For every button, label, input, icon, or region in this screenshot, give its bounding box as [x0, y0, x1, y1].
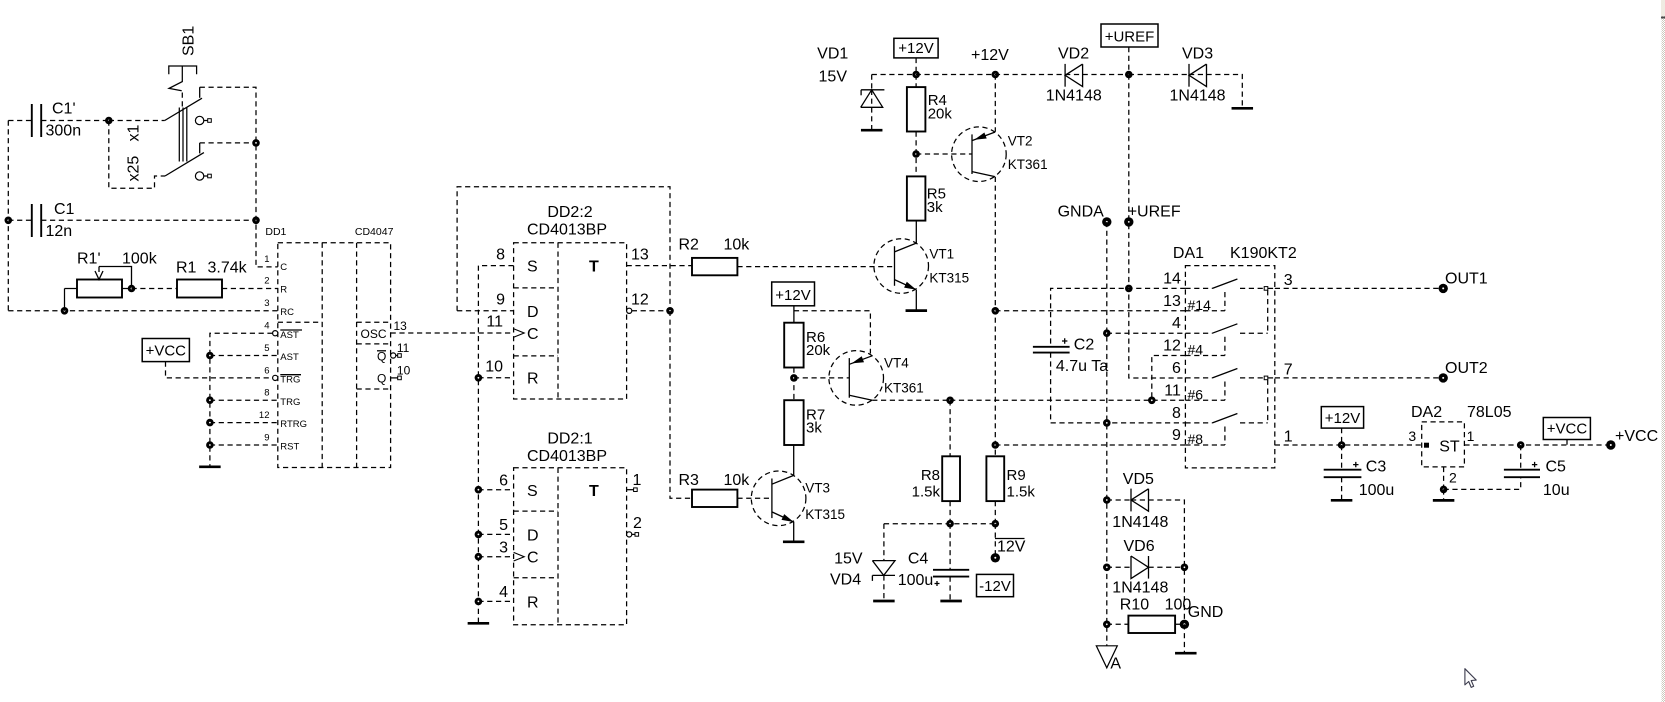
IC DA2 pin2 [1444, 467, 1457, 490]
resistor R2 [679, 237, 751, 276]
wire DD1 ground rail [210, 333, 273, 466]
svg-text:1: 1 [1284, 429, 1293, 446]
power +12V box mid [772, 282, 815, 306]
svg-text:VD4: VD4 [830, 572, 861, 589]
svg-text:5: 5 [499, 517, 508, 534]
svg-text:13: 13 [631, 246, 649, 263]
svg-text:14: 14 [1163, 270, 1181, 287]
label +UREF node [1128, 204, 1181, 221]
wire pin14 C2 [1051, 288, 1186, 346]
svg-text:SB1: SB1 [181, 26, 198, 56]
wire to DA1 pin9 [995, 444, 1185, 446]
wire pin4 [1107, 332, 1186, 334]
svg-text:DA2: DA2 [1411, 404, 1442, 421]
switch SB1 pole2 open contact [195, 172, 211, 180]
node DD2:2 pin10 rail [475, 374, 483, 382]
wire DA1 pin1 to DA2 [1275, 444, 1422, 446]
svg-text:T: T [589, 258, 599, 275]
wire UREF box down [1128, 47, 1130, 75]
ground VD4 [873, 600, 895, 603]
svg-text:C5: C5 [1546, 459, 1567, 476]
potentiometer R1' [65, 251, 158, 311]
IC DD1 pin 5 AST [264, 343, 299, 363]
wire rail pin9 [210, 444, 278, 446]
svg-text:KT315: KT315 [929, 271, 969, 286]
wire DD2:2 feedback loop [457, 187, 670, 311]
svg-text:C1: C1 [54, 201, 75, 218]
node rail pin9 [206, 441, 214, 449]
wire out to DA1 pin11 [950, 399, 1185, 401]
svg-text:+12V: +12V [1325, 410, 1360, 427]
svg-text:+12V: +12V [971, 47, 1009, 64]
wire VT2 collector down [994, 177, 996, 457]
IC DA1 switch 2 [1185, 324, 1267, 358]
switch SB1 label [181, 26, 198, 56]
wire VT2 emitter up [994, 75, 996, 132]
mouse cursor [1465, 669, 1476, 688]
node UREF terminal [1125, 218, 1133, 226]
IC DA1 pin 11 number [1164, 382, 1181, 399]
svg-text:#4: #4 [1188, 342, 1204, 358]
regulator DA2 outline [1422, 422, 1465, 467]
wire SB1 lower common [109, 121, 165, 189]
terminal +UREF [1124, 217, 1133, 226]
node C3 top [1338, 441, 1346, 449]
svg-text:RST: RST [280, 442, 299, 453]
node C5 top [1517, 441, 1525, 449]
wire OUT2 [1275, 377, 1443, 379]
node GNDA R10 [1103, 621, 1111, 629]
node rail pin8 [206, 396, 214, 404]
IC DA2 ST [1424, 438, 1460, 455]
node DD2:2 pin12 junction [666, 307, 674, 315]
diode VD3 [1170, 46, 1226, 105]
svg-text:C4: C4 [908, 551, 929, 568]
ground C3 [1331, 499, 1353, 502]
wire +12V box down [915, 58, 917, 75]
svg-text:D: D [527, 528, 539, 545]
svg-text:4: 4 [264, 321, 269, 332]
wire DA2 out [1464, 444, 1610, 446]
svg-text:VT3: VT3 [805, 481, 830, 496]
IC DD2:1 letter C [527, 550, 539, 567]
node junction C1prime right [105, 117, 113, 125]
svg-text:11: 11 [486, 314, 503, 331]
node UREF top [1125, 71, 1133, 79]
svg-text:+UREF: +UREF [1128, 204, 1181, 221]
svg-text:R: R [280, 285, 287, 296]
node +12V VT2 [992, 71, 1000, 79]
svg-text:13: 13 [394, 319, 408, 333]
svg-text:VD5: VD5 [1123, 471, 1154, 488]
svg-text:CD4013BP: CD4013BP [527, 448, 607, 465]
switch SB1 pole2 arm [165, 153, 204, 176]
wire rail pin8 [210, 399, 278, 401]
IC DD2:2 pin 11 clk [486, 314, 503, 331]
switch SB1 pole1 arm [165, 98, 202, 120]
svg-text:AST: AST [280, 352, 299, 363]
switch SB1 actuator [169, 66, 197, 162]
IC DA1 pin 6 number [1172, 360, 1181, 377]
svg-text:R2: R2 [679, 237, 700, 254]
node rail pin12 [206, 419, 214, 427]
svg-text:DD1: DD1 [265, 226, 286, 238]
svg-text:DA1: DA1 [1173, 245, 1204, 262]
svg-text:R1: R1 [176, 260, 197, 277]
wire VT2 base [916, 153, 972, 155]
svg-text:1N4148: 1N4148 [1046, 88, 1102, 105]
IC DD1 pin 12 RTRG [259, 410, 307, 430]
svg-text:+VCC: +VCC [1615, 428, 1658, 445]
node rail pin4 [475, 598, 483, 606]
diode VD5 [1107, 471, 1169, 531]
svg-text:+12V: +12V [898, 40, 933, 57]
svg-text:TRG: TRG [280, 375, 300, 386]
label +12V node [971, 47, 1009, 64]
wire SB1 to DD1 pin1 [200, 87, 278, 267]
supply -12V terminal [977, 524, 1026, 597]
IC DA1 pin 14 number [1163, 270, 1181, 287]
IC DD1 pin 10 Q [357, 363, 411, 389]
svg-text:78L05: 78L05 [1467, 404, 1512, 421]
IC DA2 pin1 number [1467, 428, 1475, 444]
svg-text:10: 10 [485, 359, 503, 376]
svg-text:11: 11 [1164, 382, 1181, 399]
svg-text:+12V: +12V [775, 287, 810, 304]
wire pin12 link down [1152, 356, 1186, 401]
switch SB1 pole1 open contact [195, 116, 211, 124]
svg-text:15V: 15V [834, 551, 863, 568]
IC DD1 OSC box [357, 322, 391, 344]
terminal +VCC [1606, 428, 1658, 450]
svg-text:3k: 3k [806, 420, 822, 437]
ground VD3 [1232, 107, 1254, 110]
node +12V R4 [912, 71, 920, 79]
svg-text:300n: 300n [46, 123, 82, 140]
IC DD2:2 outline [514, 243, 627, 399]
node C4 top [946, 520, 954, 528]
IC DD2:1 pin 6 [478, 473, 513, 490]
svg-text:VD3: VD3 [1182, 46, 1213, 63]
svg-text:8: 8 [496, 246, 505, 263]
ground VT3 [783, 540, 805, 543]
node UREF pin14 [1125, 285, 1133, 293]
capacitor C1' [8, 101, 109, 140]
svg-text:+VCC: +VCC [146, 342, 187, 359]
wire R4 to rail [915, 75, 917, 88]
power +VCC box [142, 339, 189, 362]
svg-text:VD6: VD6 [1124, 538, 1155, 555]
IC DD2:2 letter S [527, 258, 538, 275]
IC DD1 pin 2 R [264, 276, 287, 296]
node VT2 pin13 branch [992, 307, 1000, 315]
wire left vertical rail [7, 121, 9, 311]
capacitor C2 [1033, 337, 1108, 423]
svg-text:1.5k: 1.5k [1007, 484, 1036, 501]
node rail pin6 [475, 486, 483, 494]
wire R2 to VT1 base [737, 266, 894, 268]
IC DD2:2 inner lines [514, 243, 558, 399]
svg-text:DD2:2: DD2:2 [547, 204, 592, 221]
svg-text:+UREF: +UREF [1105, 28, 1155, 45]
analog IC DA1 outline [1185, 266, 1274, 468]
wire R6 R7 junction [793, 368, 795, 401]
svg-text:20k: 20k [806, 342, 831, 359]
svg-text:D: D [527, 304, 539, 321]
svg-text:GND: GND [1188, 604, 1224, 621]
svg-text:KT361: KT361 [884, 381, 924, 396]
svg-text:x1: x1 [126, 125, 143, 142]
power +12V box right [1321, 407, 1363, 429]
power +UREF box [1101, 24, 1158, 47]
resistor R10 [1107, 597, 1192, 634]
IC DD1 pin 3 RC [264, 298, 294, 318]
wire R3 to VT3 base [737, 497, 772, 499]
IC DD2:2 letter D [527, 304, 539, 321]
svg-text:RC: RC [280, 307, 294, 318]
transistor VT4 [829, 351, 924, 406]
node junction pot left [61, 307, 69, 315]
svg-text:3: 3 [1408, 428, 1416, 444]
label GNDA [1058, 204, 1105, 221]
wire to DA1 pin13 [995, 310, 1185, 312]
svg-text:100k: 100k [122, 251, 158, 268]
wire UREF rail [1129, 75, 1186, 379]
svg-text:A: A [1110, 656, 1121, 673]
node GNDA VD6 [1103, 564, 1111, 572]
node rail pin5 [206, 352, 214, 360]
svg-text:ST: ST [1439, 438, 1460, 455]
IC DA1 pin 3 number [1284, 272, 1293, 289]
wire C2 bottom pin8 [1051, 422, 1186, 424]
terminal GNDA [1102, 217, 1111, 226]
ground DA2 [1433, 489, 1455, 500]
wire rail pin5 [210, 355, 278, 357]
svg-text:20k: 20k [928, 106, 953, 123]
IC DD2:1 letter T [589, 483, 599, 500]
svg-text:KT361: KT361 [1008, 157, 1048, 172]
IC DA1 pin 9 number [1172, 427, 1181, 444]
IC DA1 pin 13 number [1163, 293, 1181, 310]
svg-text:OUT2: OUT2 [1445, 360, 1488, 377]
svg-text:CD4047: CD4047 [355, 226, 394, 238]
IC DA2 pin3 number [1408, 428, 1416, 444]
IC DD2:2 pin 8 [496, 246, 505, 263]
svg-text:13: 13 [1163, 293, 1181, 310]
IC DA1 switch 3 [1185, 369, 1274, 403]
IC DD1 pin 4 nAST [264, 321, 302, 341]
wire bottom rail neg [884, 523, 995, 525]
op IC DD1 outline [278, 243, 391, 468]
node rail pin5 dd21 [475, 531, 483, 539]
power +12V box top [894, 38, 938, 58]
svg-text:9: 9 [264, 433, 269, 444]
svg-text:6: 6 [264, 365, 269, 376]
wire R1' to R1 [132, 288, 178, 290]
IC DD2:1 outline [514, 468, 627, 625]
IC DD2:2 letter R [527, 370, 539, 387]
resistor R3 [679, 472, 751, 507]
IC DD1 labels [265, 226, 393, 238]
wire UREF to VD3 [1129, 74, 1189, 76]
IC DD2:2 pin 13 [627, 246, 692, 265]
svg-text:12: 12 [1163, 338, 1181, 355]
label x25 [126, 156, 143, 182]
wire GNDA rail [1106, 222, 1108, 646]
svg-text:S: S [527, 258, 538, 275]
IC DD2:1 letter S [527, 483, 538, 500]
switch SB1 pole2 throw [199, 143, 201, 154]
power +VCC box right [1543, 418, 1590, 440]
IC DA1 pin 12 number [1163, 338, 1181, 355]
svg-text:2: 2 [633, 515, 642, 532]
wire pin12 to R3 [670, 311, 692, 499]
svg-text:-12V: -12V [979, 578, 1011, 595]
IC DD2:2 pin 12 [627, 292, 670, 314]
svg-text:TRG: TRG [280, 397, 300, 408]
svg-text:9: 9 [1172, 427, 1181, 444]
resistor R6 [784, 323, 830, 368]
wire +VCC box down [1566, 440, 1568, 446]
svg-text:1: 1 [1467, 428, 1475, 444]
svg-text:KT315: KT315 [805, 507, 845, 522]
svg-text:S: S [527, 483, 538, 500]
IC DD1 pin 13 OSC out [391, 319, 514, 333]
wire +12V to R6 [793, 306, 795, 323]
resistor R1 [176, 260, 248, 298]
svg-text:C: C [527, 550, 539, 567]
node junction SB1 right [252, 139, 260, 147]
IC DD2:1 letter R [527, 595, 539, 612]
svg-text:C2: C2 [1074, 337, 1095, 354]
svg-text:7: 7 [1284, 362, 1293, 379]
svg-text:C: C [280, 262, 287, 273]
wire +VCC to pin6 [166, 362, 273, 378]
svg-text:VD2: VD2 [1058, 46, 1089, 63]
resistor R4 [907, 87, 952, 131]
node VT2 pin9 branch [992, 441, 1000, 449]
terminal OUT1 [1439, 270, 1488, 293]
svg-text:C: C [527, 326, 539, 343]
diode VD6 [1107, 538, 1185, 597]
IC DA1 labels [1173, 245, 1297, 262]
wire VD2 to UREF [1083, 74, 1129, 76]
wire VD1 branch [871, 75, 873, 90]
svg-text:4: 4 [1172, 315, 1181, 332]
IC DA1 pin 4 number [1172, 315, 1181, 332]
resistor R7 [784, 400, 825, 445]
svg-text:12V: 12V [997, 539, 1026, 556]
svg-text:1: 1 [633, 472, 642, 489]
net flag A [1096, 646, 1121, 673]
node pin11 link [1148, 397, 1156, 405]
switch SB1 pole1 throw x1 [199, 87, 201, 98]
IC DA1 switch 1-2 link [1267, 290, 1269, 333]
svg-text:6: 6 [1172, 360, 1181, 377]
IC DD2:1 pin 1 [627, 472, 642, 492]
capacitor C4 [898, 524, 969, 600]
IC DD2:1 labels [527, 431, 607, 466]
wire rail pin12 [210, 422, 278, 424]
node R6-R7 [790, 374, 798, 382]
IC DD2:2 pin 9 [457, 292, 513, 311]
IC DD2:1 inner lines [514, 468, 558, 625]
svg-text:VT1: VT1 [929, 246, 954, 261]
svg-text:3: 3 [264, 298, 269, 309]
svg-text:12: 12 [259, 410, 270, 421]
ground DD2 rail [468, 622, 490, 625]
wire +12V to VT4 emitter [794, 311, 871, 354]
svg-text:11: 11 [397, 341, 410, 355]
wire R9 bottom [994, 501, 996, 524]
svg-text:VT4: VT4 [884, 355, 909, 370]
svg-text:R: R [527, 595, 539, 612]
svg-text:1.5k: 1.5k [912, 484, 941, 501]
svg-text:CD4013BP: CD4013BP [527, 222, 607, 239]
wire S-rail DD2 [478, 266, 513, 622]
svg-text:12n: 12n [46, 223, 73, 240]
ground DD1 rail [199, 465, 221, 468]
IC DA1 pin 8 number [1172, 405, 1181, 422]
IC DD2:1 pin 5 [478, 517, 513, 534]
capacitor C1 [8, 201, 256, 240]
svg-text:VT2: VT2 [1008, 134, 1033, 149]
svg-text:8: 8 [264, 388, 269, 399]
wire top rail [872, 74, 1065, 76]
node VT4 out [946, 397, 954, 405]
IC DD2:2 pin 10 [478, 359, 513, 378]
wire R1 to DD1 pin2 [222, 288, 278, 290]
svg-text:4: 4 [499, 584, 508, 601]
ground VT1 [906, 309, 928, 312]
resistor R5 [907, 176, 946, 220]
svg-text:3: 3 [499, 540, 508, 557]
IC DD1 inner dividers [278, 243, 357, 468]
IC DD1 pin 8 TRG [264, 388, 300, 408]
node junction R1' wiper [128, 285, 136, 293]
svg-text:AST: AST [280, 330, 299, 341]
IC DA1 pin 1 number [1284, 429, 1293, 446]
svg-text:1N4148: 1N4148 [1170, 88, 1226, 105]
capacitor C5 [1504, 445, 1570, 499]
wire VT4 collector out [872, 399, 950, 401]
svg-text:GNDA: GNDA [1058, 204, 1105, 221]
svg-text:R9: R9 [1007, 467, 1026, 484]
svg-text:R3: R3 [679, 472, 700, 489]
svg-text:1N4148: 1N4148 [1112, 580, 1168, 597]
svg-text:C1': C1' [52, 101, 76, 118]
svg-text:3.74k: 3.74k [208, 260, 248, 277]
wire VT4 base [794, 377, 849, 379]
svg-text:3: 3 [1284, 272, 1293, 289]
svg-text:10k: 10k [724, 237, 751, 254]
IC DD1 pin 9 RST [264, 433, 299, 453]
wire R8 bottom [949, 501, 951, 524]
capacitor C3 [1324, 445, 1395, 499]
IC DD1 clockwedge DD2:2 [514, 329, 525, 338]
IC DD2:2 letter T [589, 258, 599, 275]
IC DA2 labels [1411, 404, 1512, 421]
IC DD2:2 labels [527, 204, 607, 239]
wire VD5 right down [1149, 500, 1185, 624]
svg-text:10: 10 [397, 363, 411, 377]
node junction C1-C1prime left [5, 217, 13, 225]
wire pin2 to C5 [1444, 477, 1521, 489]
svg-text:10u: 10u [1543, 482, 1570, 499]
resistor R9 [986, 456, 1035, 501]
IC DD2:1 letter D [527, 528, 539, 545]
svg-text:100u: 100u [1359, 482, 1395, 499]
